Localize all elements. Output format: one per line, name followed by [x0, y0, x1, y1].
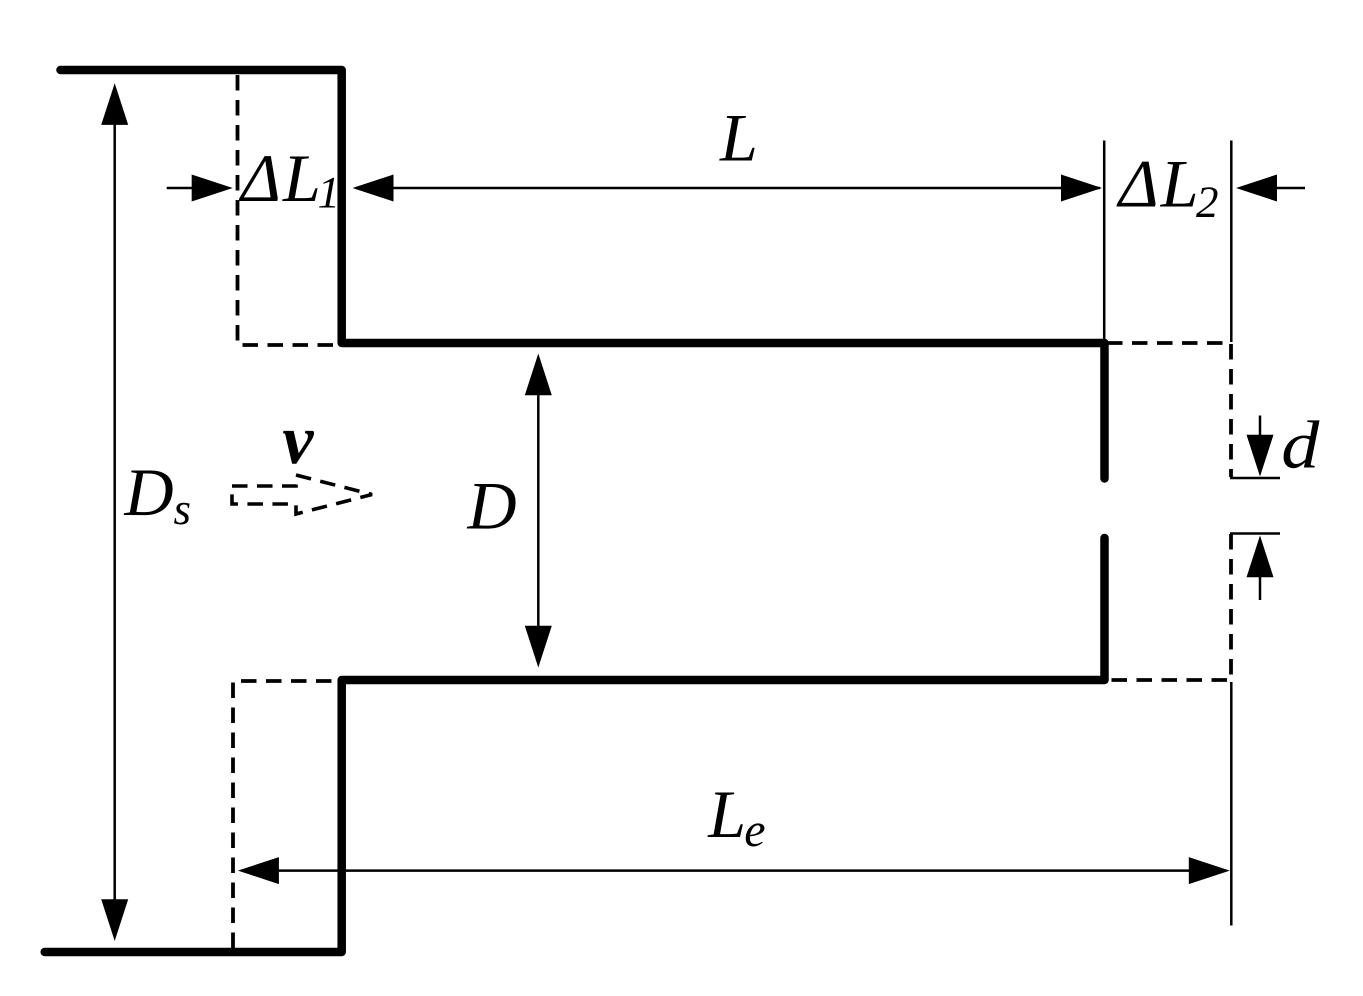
- svg-text:L: L: [282, 140, 321, 216]
- svg-text:1: 1: [318, 167, 341, 217]
- svg-text:e: e: [744, 804, 765, 857]
- svg-text:s: s: [174, 484, 192, 534]
- svg-text:L: L: [707, 776, 746, 852]
- svg-text:L: L: [1160, 146, 1199, 222]
- svg-text:Δ: Δ: [1116, 146, 1159, 222]
- svg-text:d: d: [1281, 406, 1320, 482]
- svg-text:Δ: Δ: [238, 140, 281, 216]
- svg-text:2: 2: [1196, 177, 1219, 227]
- svg-text:D: D: [467, 468, 517, 544]
- svg-text:L: L: [719, 100, 758, 176]
- svg-text:v: v: [282, 402, 314, 479]
- svg-text:D: D: [124, 454, 174, 530]
